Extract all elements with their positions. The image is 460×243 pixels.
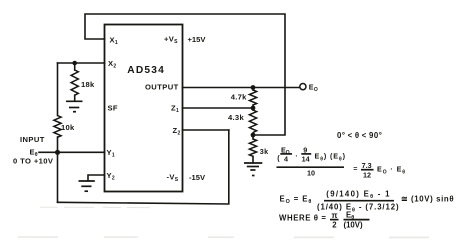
wire left rail Y1 to bottom (57, 152, 59, 202)
terminal Eo circle (300, 84, 306, 90)
wire Z2 row (183, 129, 229, 131)
wire tap to 3k (252, 133, 254, 139)
svg-text:4.7k: 4.7k (231, 93, 247, 102)
svg-text:Y1: Y1 (107, 148, 115, 159)
equation 1 right side (353, 161, 406, 179)
node X2 junction (72, 61, 77, 66)
svg-text:=: = (353, 164, 357, 173)
svg-text:-VS: -VS (167, 173, 179, 184)
svg-text:9: 9 (303, 145, 307, 154)
svg-text:4: 4 (284, 155, 288, 164)
equation 2 left side (280, 194, 313, 205)
wire OUTPUT row (183, 87, 300, 89)
resistor R4 4.3k body (249, 110, 256, 132)
wire X2 row (58, 62, 105, 64)
wire divider top lead (252, 88, 254, 91)
svg-text:10: 10 (307, 169, 315, 178)
wire Y1 row input (39, 151, 105, 153)
svg-text:14: 14 (302, 155, 310, 164)
wire Y2 to ground (88, 175, 105, 181)
svg-text:AD534: AD534 (127, 65, 165, 76)
wire 3k to ground (252, 156, 254, 163)
scan artifact bottom streak (18, 236, 455, 239)
node Y1 input junction (55, 150, 60, 155)
equation 1 fraction bar and denominator (277, 167, 345, 178)
svg-text:3k: 3k (260, 147, 269, 156)
svg-text:(9/140) Eθ - 1: (9/140) Eθ - 1 (326, 189, 390, 200)
svg-text:·: · (295, 152, 297, 161)
equation 1 numerator (277, 145, 346, 163)
equation 2 fraction (317, 189, 399, 213)
resistor R5 3k body (249, 139, 256, 156)
svg-text:OUTPUT: OUTPUT (145, 83, 179, 92)
svg-text:X2: X2 (108, 59, 116, 70)
equation 3 where clause (279, 210, 370, 229)
svg-text:7.3: 7.3 (362, 161, 372, 170)
wire between 4.7k and 4.3k (252, 105, 254, 110)
svg-text:4.3k: 4.3k (228, 113, 244, 122)
svg-text:EO · Eθ: EO · Eθ (377, 165, 406, 176)
node divider top junction (251, 85, 256, 90)
svg-text:Eθ) (Eθ): Eθ) (Eθ) (315, 152, 346, 163)
wire X2 node to 18k (74, 63, 76, 70)
svg-text:2: 2 (332, 220, 337, 229)
svg-text:SF: SF (108, 104, 118, 113)
svg-text:(1/40) Eθ - (7.3/12): (1/40) Eθ - (7.3/12) (317, 203, 399, 214)
svg-text:0° < θ < 90°: 0° < θ < 90° (337, 131, 382, 140)
ground under Y2 (79, 181, 95, 191)
resistor R2 10k body (54, 116, 61, 138)
svg-text:18k: 18k (81, 80, 95, 89)
svg-text:12: 12 (363, 170, 371, 179)
svg-text:0 TO +10V: 0 TO +10V (13, 156, 54, 165)
node divider tap junction (251, 133, 256, 138)
svg-text:INPUT: INPUT (20, 135, 45, 144)
svg-text:EO = Eθ: EO = Eθ (280, 194, 313, 205)
resistor R1 18k body (71, 70, 78, 95)
equation 2 right side (401, 194, 454, 203)
svg-text:X1: X1 (110, 35, 118, 46)
node Z1 divider junction (251, 106, 256, 111)
wire feedback top from X1 to divider tap (85, 14, 285, 135)
svg-text:+15V: +15V (188, 35, 207, 44)
ground under 18k (66, 101, 83, 111)
scan artifact faint line under bottom rail (40, 206, 150, 208)
svg-text:10k: 10k (61, 123, 75, 132)
svg-text:EO: EO (309, 82, 318, 93)
svg-text:(: ( (277, 154, 280, 163)
svg-text:+VS: +VS (164, 35, 178, 46)
svg-text:-15V: -15V (189, 173, 206, 182)
wire Z1 row (183, 107, 254, 109)
svg-text:(10V): (10V) (344, 220, 363, 229)
svg-text:Z2: Z2 (173, 126, 181, 137)
ground under 3k (244, 163, 262, 176)
wire 18k to ground (74, 95, 76, 101)
svg-text:Z1: Z1 (171, 103, 179, 114)
op-amp U1 AD534 body (105, 25, 183, 192)
wire bottom rail (58, 130, 229, 204)
svg-text:WHERE θ =: WHERE θ = (279, 213, 327, 222)
wire 10k to Y1 node (57, 137, 59, 152)
wire left rail X2 to 10k (57, 63, 59, 116)
svg-text:π: π (332, 211, 338, 220)
svg-text:≅ (10V) sinθ: ≅ (10V) sinθ (401, 194, 454, 203)
resistor R3 4.7k body (249, 90, 256, 105)
svg-text:Y2: Y2 (107, 171, 115, 182)
